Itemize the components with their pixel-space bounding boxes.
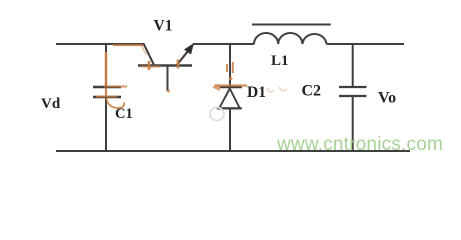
diode D1 cathode bar orange overlay [214,84,247,86]
diode D1 orange wedge left of bar [212,84,220,91]
capacitor C2 vertical lead upper [352,44,354,86]
wire top middle (emitter to inductor) [193,43,254,45]
transistor V1 orange tick left [148,61,151,70]
svg-text:V1: V1 [154,18,173,35]
svg-text:Vd: Vd [41,96,61,112]
diode D1 orange tick upper right [232,62,234,73]
capacitor C1 orange scribble curl [107,98,125,109]
diode D1 anode base bar [217,107,242,109]
diode D1 cathode bar [220,86,242,88]
transistor V1 base bar orange overlay [141,66,161,68]
capacitor C1 orange lead highlight [105,52,107,86]
diode D1 orange dot [229,77,233,81]
inductor L1 coil [254,33,327,44]
transistor V1 emitter diagonal [177,49,191,66]
transistor V1 emitter arrowhead [184,43,194,55]
transistor V1 base bar [138,64,192,66]
capacitor C1 bottom plate [93,96,121,98]
diode D1 vertical lead upper [229,44,231,87]
capacitor C2 bottom plate [339,95,367,97]
svg-text:C1: C1 [115,106,133,122]
capacitor C1 vertical lead lower [105,97,107,151]
svg-text:C2: C2 [302,83,322,100]
transistor V1 collector diagonal [144,44,155,66]
capacitor C1 top plate [93,86,121,88]
capacitor C2 vertical lead lower [352,96,354,151]
wire top left (input to transistor collector) [56,43,144,45]
diode D1 vertical lead lower [229,109,231,152]
transistor V1 orange tick right [177,60,180,69]
svg-text:D1: D1 [247,84,266,101]
capacitor C1 orange lead between plates [105,87,107,97]
wire top right (inductor to output terminal) [327,43,405,45]
svg-text:L1: L1 [271,53,289,69]
capacitor C1 vertical lead upper [105,44,107,86]
capacitor C1 bottom plate orange overlay [96,96,117,98]
transistor V1 orange dot at base lead end [167,89,170,92]
diode D1 faint gray circle annotation [210,108,224,121]
svg-text:Vo: Vo [378,90,396,107]
diode D1 orange tick upper left [226,64,228,72]
transistor V1 base lead [167,66,169,92]
wire bottom rail [56,150,410,152]
diode D1 triangle [219,89,240,109]
capacitor C2 top plate [339,86,367,88]
diode D1 faint orange ghost marks [267,87,287,92]
inductor L1 core bar [252,24,331,26]
wire orange highlight along collector diagonal [142,46,147,55]
wire orange highlight under top wire [113,44,143,46]
capacitor C1 top plate orange overlay [104,86,127,88]
svg-text:www.cntronics.com: www.cntronics.com [276,134,443,155]
